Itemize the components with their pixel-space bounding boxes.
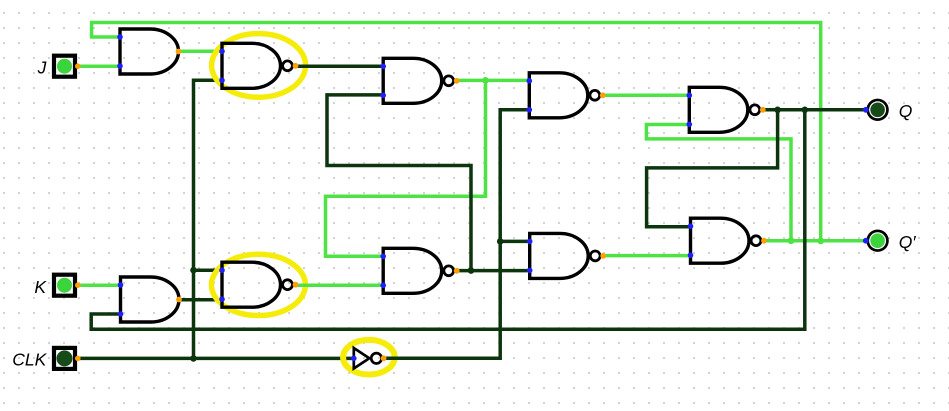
wire G1 out to G2: [179, 50, 223, 54]
NAND gate G3: [380, 58, 459, 103]
wire G3 out branch to G6 top: [326, 80, 486, 256]
input CLK: [54, 348, 81, 369]
NAND gate G9: [687, 87, 766, 132]
output Q: [863, 99, 889, 121]
node G6 out junction (junction): [468, 267, 475, 274]
NOT gate (clock inverter): [351, 348, 387, 369]
svg-text:K: K: [34, 277, 47, 297]
wire K input to G4: [78, 283, 121, 287]
svg-text:Q: Q: [899, 101, 913, 121]
wire G9 out to Q: [763, 108, 866, 112]
highlight around inverter: [343, 340, 395, 375]
wire G7 out to G9 top: [602, 93, 689, 97]
wire inverter out to G7 G8: [383, 110, 529, 358]
wire G6 out cross to G3 bottom: [327, 95, 471, 271]
svg-text:Q′: Q′: [899, 232, 917, 252]
output Qprime: [863, 230, 889, 252]
wire G2 out to G3 top: [296, 64, 384, 68]
node Q junction 2 (junction): [802, 107, 809, 114]
NAND gate G10: [688, 218, 767, 263]
wire Q branch to G10 top: [647, 110, 778, 227]
wire G2 out stub: [296, 64, 312, 68]
wire CLK branch to G5 top: [194, 268, 223, 272]
node CLK vertical junction (junction): [190, 267, 197, 274]
wire J input to G1: [78, 64, 120, 68]
AND gate G4: [118, 277, 182, 322]
input J: [54, 56, 81, 77]
node Qprime junction 2 (junction): [817, 238, 824, 245]
NAND gate G2: [219, 43, 298, 88]
wire G5 out to G6 bottom: [296, 283, 384, 287]
wire Q feedback to G4 bottom: [91, 110, 805, 329]
wire G8 out to G10 bottom: [602, 254, 691, 258]
NAND gate G6: [380, 248, 459, 293]
svg-text:J: J: [37, 57, 47, 77]
wire G6 out to G8 bottom: [456, 269, 530, 273]
wire CLK input to inverter: [78, 357, 354, 361]
highlight around gate G5: [211, 254, 305, 315]
NAND gate G7: [527, 73, 606, 118]
node G3 out junction (junction): [482, 77, 489, 84]
node CLK wire junction (junction): [190, 355, 197, 362]
wire CLK vertical to G2 G5: [194, 80, 223, 358]
svg-text:CLK: CLK: [12, 349, 47, 369]
wire Qprime feedback to G1 top: [92, 23, 821, 242]
NAND gate G5: [219, 262, 298, 307]
node Q junction 1 (junction): [774, 107, 781, 114]
input K: [54, 275, 81, 296]
NAND gate G8: [527, 233, 606, 278]
highlight around gate G2: [212, 34, 306, 98]
wire Qprime branch to G9 bottom: [646, 125, 791, 241]
wire G4 out to G5 bottom: [179, 298, 223, 302]
wire G10 out to Qprime: [763, 239, 866, 243]
node inverter line junction (junction): [497, 238, 504, 245]
wire inverter branch to G8 top: [500, 240, 530, 244]
node Qprime junction 1 (junction): [788, 237, 795, 244]
wire G3 out to G7: [456, 79, 529, 83]
AND gate G1: [117, 29, 181, 74]
